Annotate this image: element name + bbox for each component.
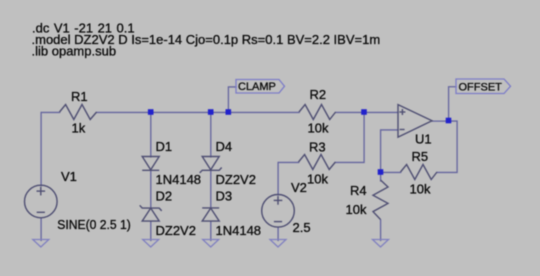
svg-text:R4: R4	[350, 183, 367, 198]
svg-text:OFFSET: OFFSET	[459, 81, 503, 93]
svg-text:R1: R1	[71, 89, 88, 104]
svg-text:R2: R2	[310, 87, 327, 102]
svg-text:.lib opamp.sub: .lib opamp.sub	[32, 43, 117, 58]
svg-text:D2: D2	[156, 189, 173, 204]
svg-text:2.5: 2.5	[293, 220, 311, 235]
svg-text:U1: U1	[415, 132, 432, 147]
svg-text:D4: D4	[216, 139, 233, 154]
svg-text:10k: 10k	[410, 182, 431, 197]
svg-text:10k: 10k	[346, 202, 367, 217]
svg-text:R3: R3	[309, 140, 326, 155]
svg-text:1N4148: 1N4148	[216, 223, 262, 238]
svg-text:10k: 10k	[307, 171, 328, 186]
svg-text:V2: V2	[291, 180, 307, 195]
svg-text:DZ2V2: DZ2V2	[156, 223, 196, 238]
svg-text:SINE(0 2.5 1): SINE(0 2.5 1)	[57, 217, 131, 232]
svg-text:V1: V1	[61, 169, 77, 184]
svg-text:1N4148: 1N4148	[156, 172, 202, 187]
svg-text:1k: 1k	[72, 121, 86, 136]
svg-text:D1: D1	[156, 139, 173, 154]
svg-text:CLAMP: CLAMP	[238, 81, 276, 93]
svg-text:DZ2V2: DZ2V2	[216, 172, 256, 187]
svg-text:D3: D3	[216, 189, 233, 204]
svg-text:R5: R5	[412, 149, 429, 164]
svg-text:10k: 10k	[308, 121, 329, 136]
